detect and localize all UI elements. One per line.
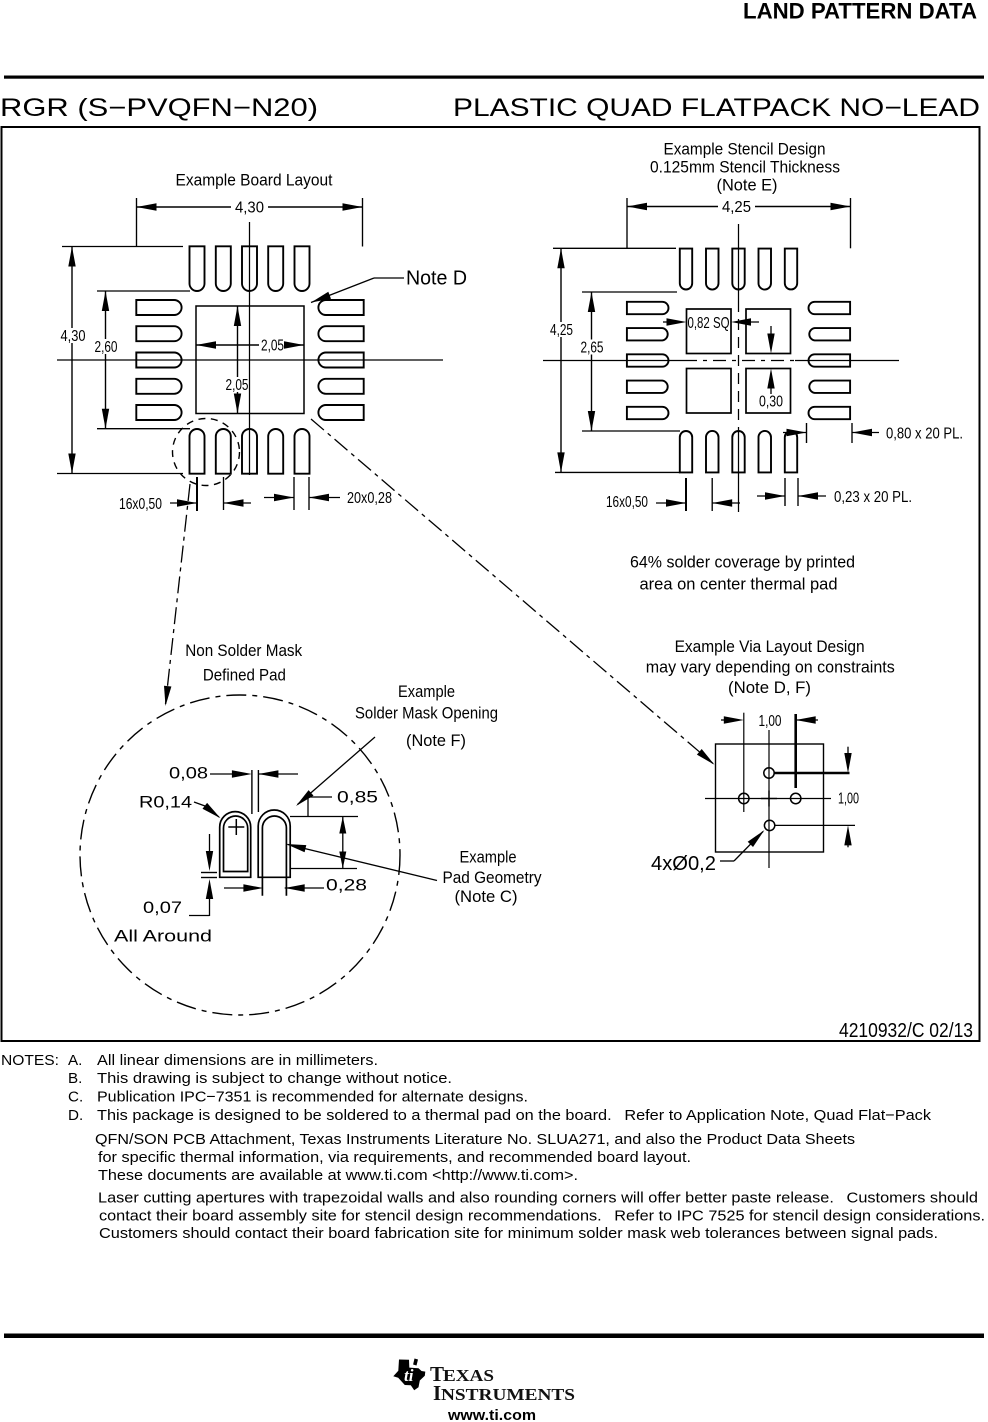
board horizontal centerline: [57, 359, 443, 361]
stencil aperture top 3: [732, 249, 744, 290]
footer rule: [4, 1334, 984, 1339]
svg-text:0,08: 0,08: [169, 764, 208, 783]
stencil thermal aperture square 4: [746, 369, 791, 414]
svg-text:0,28: 0,28: [326, 876, 367, 895]
svg-text:0,23 x 20 PL.: 0,23 x 20 PL.: [834, 489, 912, 506]
board thermal pad 2.05 square: [196, 306, 304, 414]
svg-text:A.: A.: [68, 1052, 82, 1069]
dim 0,07 all around (detail): [114, 834, 217, 946]
svg-text:0,85: 0,85: [337, 788, 378, 807]
via crosshair horizontal: [705, 798, 831, 800]
svg-text:This drawing is subject to cha: This drawing is subject to change withou…: [97, 1070, 452, 1087]
detail view circle (dashed): [173, 419, 240, 486]
dim R0,14 corner radius (detail): [139, 793, 221, 819]
via layout thermal pad square: [716, 744, 824, 852]
board pad left 5: [136, 405, 181, 420]
stencil aperture bottom 2: [706, 431, 719, 472]
stencil horizontal centerline: [543, 360, 899, 362]
stencil aperture right 4: [809, 381, 850, 393]
TI logo wordmark: [430, 1362, 575, 1405]
dim 2,65 vertical (stencil): [579, 292, 681, 431]
stencil aperture right 1: [809, 302, 851, 314]
dim 0,08 mask web (detail): [169, 764, 298, 815]
stencil aperture bottom 3: [732, 431, 744, 472]
board pad right 4: [318, 379, 363, 394]
svg-text:(Note F): (Note F): [406, 731, 466, 750]
stencil aperture top 4: [759, 249, 772, 290]
board pad right 5: [318, 405, 363, 420]
stencil title: [650, 140, 840, 195]
dim 4,30 horizontal top (board): [137, 198, 363, 247]
stencil aperture bottom 1: [680, 431, 692, 472]
stencil aperture top 5: [785, 249, 797, 290]
board vertical centerline: [249, 222, 251, 475]
svg-text:1,00: 1,00: [759, 713, 782, 730]
svg-text:LAND PATTERN DATA: LAND PATTERN DATA: [743, 0, 977, 24]
dim 1,00 vertical (via): [774, 747, 859, 848]
dim 0,30 gap (stencil): [759, 326, 783, 411]
board pad bottom 1: [190, 429, 205, 474]
board pad right 2: [318, 326, 363, 341]
stencil aperture right 2: [809, 328, 850, 340]
svg-text:PLASTIC QUAD FLATPACK NO−LEAD: PLASTIC QUAD FLATPACK NO−LEAD: [453, 94, 980, 122]
dim 20x0,28 (board): [264, 477, 392, 510]
svg-text:may vary depending on constrai: may vary depending on constraints: [646, 658, 895, 677]
package family PLASTIC QUAD FLATPACK NO-LEAD: [453, 94, 980, 122]
stencil aperture bottom 5: [785, 431, 797, 472]
dim 4,25 vertical left (stencil): [548, 248, 680, 472]
document number: [839, 1020, 973, 1042]
board pad top 1: [190, 246, 205, 291]
svg-text:2,05: 2,05: [261, 338, 284, 355]
board pad top 2: [216, 246, 231, 291]
board pad left 3: [136, 353, 181, 368]
board pad bottom 3: [242, 429, 257, 474]
svg-text:0,30: 0,30: [759, 394, 783, 411]
svg-text:RGR (S−PVQFN−N20): RGR (S−PVQFN−N20): [0, 94, 318, 122]
svg-text:0,80 x 20 PL.: 0,80 x 20 PL.: [886, 426, 963, 443]
board pad bottom 4: [268, 429, 283, 474]
svg-text:(Note E): (Note E): [717, 176, 778, 195]
svg-text:4210932/C 02/13: 4210932/C 02/13: [839, 1020, 973, 1042]
svg-text:ti: ti: [404, 1366, 414, 1385]
via size label 4x dia 0,2: [651, 830, 764, 875]
svg-text:Note D: Note D: [406, 268, 467, 290]
svg-text:20x0,28: 20x0,28: [347, 490, 392, 507]
detail boundary circle (dash-dot): [80, 695, 400, 1015]
board pad right 1: [318, 300, 363, 315]
dash-dot leader to via layout: [311, 419, 715, 765]
dim 4,30 vertical left (board): [57, 247, 183, 474]
board pad top 5: [295, 246, 310, 291]
stencil aperture top 1: [680, 249, 692, 290]
dash-dot leader to detail view: [164, 484, 190, 706]
detail right pad solder mask opening: [258, 810, 290, 877]
stencil vertical centerline: [738, 224, 740, 512]
svg-text:area on center thermal pad: area on center thermal pad: [640, 575, 838, 594]
svg-text:4,30: 4,30: [235, 200, 264, 217]
svg-text:I: I: [433, 1381, 441, 1405]
svg-text:contact their board assembly s: contact their board assembly site for st…: [99, 1207, 985, 1224]
board pad left 2: [136, 326, 181, 341]
svg-text:Pad Geometry: Pad Geometry: [443, 868, 542, 887]
detail left pad geometry: [224, 816, 248, 872]
svg-text:Example Board Layout: Example Board Layout: [176, 171, 333, 190]
notes block: [1, 1052, 985, 1242]
dim 2,05 horizontal (board): [196, 338, 304, 355]
note D callout: [311, 268, 467, 303]
dim 1,00 horizontal (via): [721, 713, 818, 812]
svg-text:www.ti.com: www.ti.com: [447, 1407, 536, 1422]
via 3: [791, 793, 801, 803]
callout example solder mask opening: [296, 682, 498, 806]
dim 16x0,50 (stencil): [606, 478, 740, 511]
board pad top 4: [268, 246, 283, 291]
svg-text:2,65: 2,65: [581, 340, 604, 357]
stencil aperture right 3: [809, 354, 851, 366]
dim 16x0,50 (board): [119, 477, 251, 513]
stencil aperture left 2: [627, 328, 668, 340]
via crosshair vertical: [768, 730, 770, 868]
svg-text:C.: C.: [68, 1088, 83, 1105]
svg-text:4,30: 4,30: [61, 328, 86, 345]
svg-text:NOTES:: NOTES:: [1, 1052, 59, 1069]
stencil thermal aperture square 1: [687, 309, 732, 354]
svg-text:2,60: 2,60: [95, 339, 118, 356]
svg-text:EXAS: EXAS: [443, 1366, 494, 1385]
svg-text:64% solder coverage by printed: 64% solder coverage by printed: [630, 553, 855, 572]
svg-text:for specific thermal informati: for specific thermal information, via re…: [98, 1149, 691, 1166]
dim 0,80 x 20 PL (stencil): [783, 423, 963, 443]
board layout title: [176, 171, 333, 190]
svg-text:All Around: All Around: [114, 927, 212, 946]
callout example pad geometry: [286, 844, 542, 906]
svg-text:Example Stencil Design: Example Stencil Design: [664, 140, 826, 159]
via layout title: [646, 637, 895, 697]
svg-text:Defined Pad: Defined Pad: [203, 666, 286, 685]
detail right pad geometry (extends below): [262, 816, 286, 896]
svg-text:D.: D.: [68, 1107, 83, 1124]
svg-text:Example: Example: [460, 848, 517, 867]
stencil aperture bottom 4: [759, 431, 772, 472]
svg-text:0,82 SQ: 0,82 SQ: [688, 315, 730, 332]
svg-text:Solder Mask Opening: Solder Mask Opening: [355, 704, 498, 723]
board pad left 1: [136, 300, 181, 315]
dim 0,85 pad length (detail): [290, 788, 378, 869]
stencil thermal aperture square 3: [687, 369, 732, 414]
dim 0,82 SQ (stencil): [663, 315, 759, 332]
via 2: [739, 793, 749, 803]
dim 0,23 x 20 PL (stencil): [757, 478, 912, 506]
dim 0,28 pad width (detail): [224, 876, 367, 895]
svg-text:This package is designed to be: This package is designed to be soldered …: [97, 1107, 931, 1124]
svg-text:16x0,50: 16x0,50: [606, 494, 648, 511]
board pad bottom 2: [216, 429, 231, 474]
svg-text:QFN/SON PCB Attachment, Texas: QFN/SON PCB Attachment, Texas Instrument…: [95, 1131, 855, 1148]
svg-text:0.125mm Stencil Thickness: 0.125mm Stencil Thickness: [650, 158, 840, 177]
stencil aperture left 1: [627, 302, 669, 314]
svg-text:All linear dimensions are in m: All linear dimensions are in millimeters…: [97, 1052, 378, 1069]
header rule: [4, 76, 984, 79]
dim 4,25 horizontal top (stencil): [627, 198, 851, 248]
svg-text:(Note D, F): (Note D, F): [728, 678, 811, 697]
detail title non solder mask defined pad: [185, 641, 302, 685]
svg-text:NSTRUMENTS: NSTRUMENTS: [441, 1385, 575, 1404]
via layout center cross: [761, 791, 777, 807]
stencil thermal aperture square 2: [746, 309, 791, 354]
header title LAND PATTERN DATA: [743, 0, 977, 24]
via 1: [764, 768, 774, 778]
svg-text:Customers should contact their: Customers should contact their board fab…: [99, 1225, 938, 1242]
svg-text:Example: Example: [398, 682, 455, 701]
detail pad center mark cross: [228, 819, 244, 835]
stencil aperture left 5: [627, 407, 669, 419]
svg-text:1,00: 1,00: [838, 791, 859, 808]
svg-text:R0,14: R0,14: [139, 793, 192, 812]
stencil aperture left 4: [627, 381, 668, 393]
stencil aperture right 5: [809, 407, 851, 419]
svg-text:B.: B.: [68, 1070, 82, 1087]
board pad left 4: [136, 379, 181, 394]
stencil aperture left 3: [627, 354, 669, 366]
via ext thick vertical: [794, 714, 797, 788]
board pad bottom 5: [295, 429, 310, 474]
drawing frame: [2, 127, 980, 1041]
svg-text:(Note C): (Note C): [455, 887, 518, 906]
stencil aperture top 2: [706, 249, 719, 290]
svg-text:Publication IPC−7351 is recomm: Publication IPC−7351 is recommended for …: [97, 1088, 528, 1105]
stencil coverage note: [630, 553, 855, 594]
via 4: [764, 820, 774, 830]
footer url: [447, 1407, 536, 1422]
detail left pad solder mask opening: [220, 812, 251, 878]
svg-text:These documents are available: These documents are available at www.ti.…: [98, 1167, 578, 1184]
board pad top 3: [242, 246, 257, 291]
TI logo texas state: [393, 1359, 425, 1391]
svg-text:16x0,50: 16x0,50: [119, 496, 162, 513]
svg-text:4xØ0,2: 4xØ0,2: [651, 853, 716, 875]
board pad right 3: [318, 353, 363, 368]
svg-text:Non Solder Mask: Non Solder Mask: [185, 641, 302, 660]
svg-text:4,25: 4,25: [550, 322, 573, 339]
svg-text:4,25: 4,25: [722, 199, 751, 216]
svg-text:0,07: 0,07: [143, 898, 182, 917]
package designator RGR (S-PVQFN-N20): [0, 94, 318, 122]
dim 2,05 vertical (board): [226, 306, 249, 414]
svg-text:Example Via Layout Design: Example Via Layout Design: [675, 637, 865, 656]
dim 2,60 vertical (board): [93, 291, 191, 429]
via ext thick horizontal: [774, 772, 850, 775]
svg-text:Laser cutting apertures with t: Laser cutting apertures with trapezoidal…: [98, 1190, 978, 1207]
svg-text:2,05: 2,05: [226, 377, 249, 394]
